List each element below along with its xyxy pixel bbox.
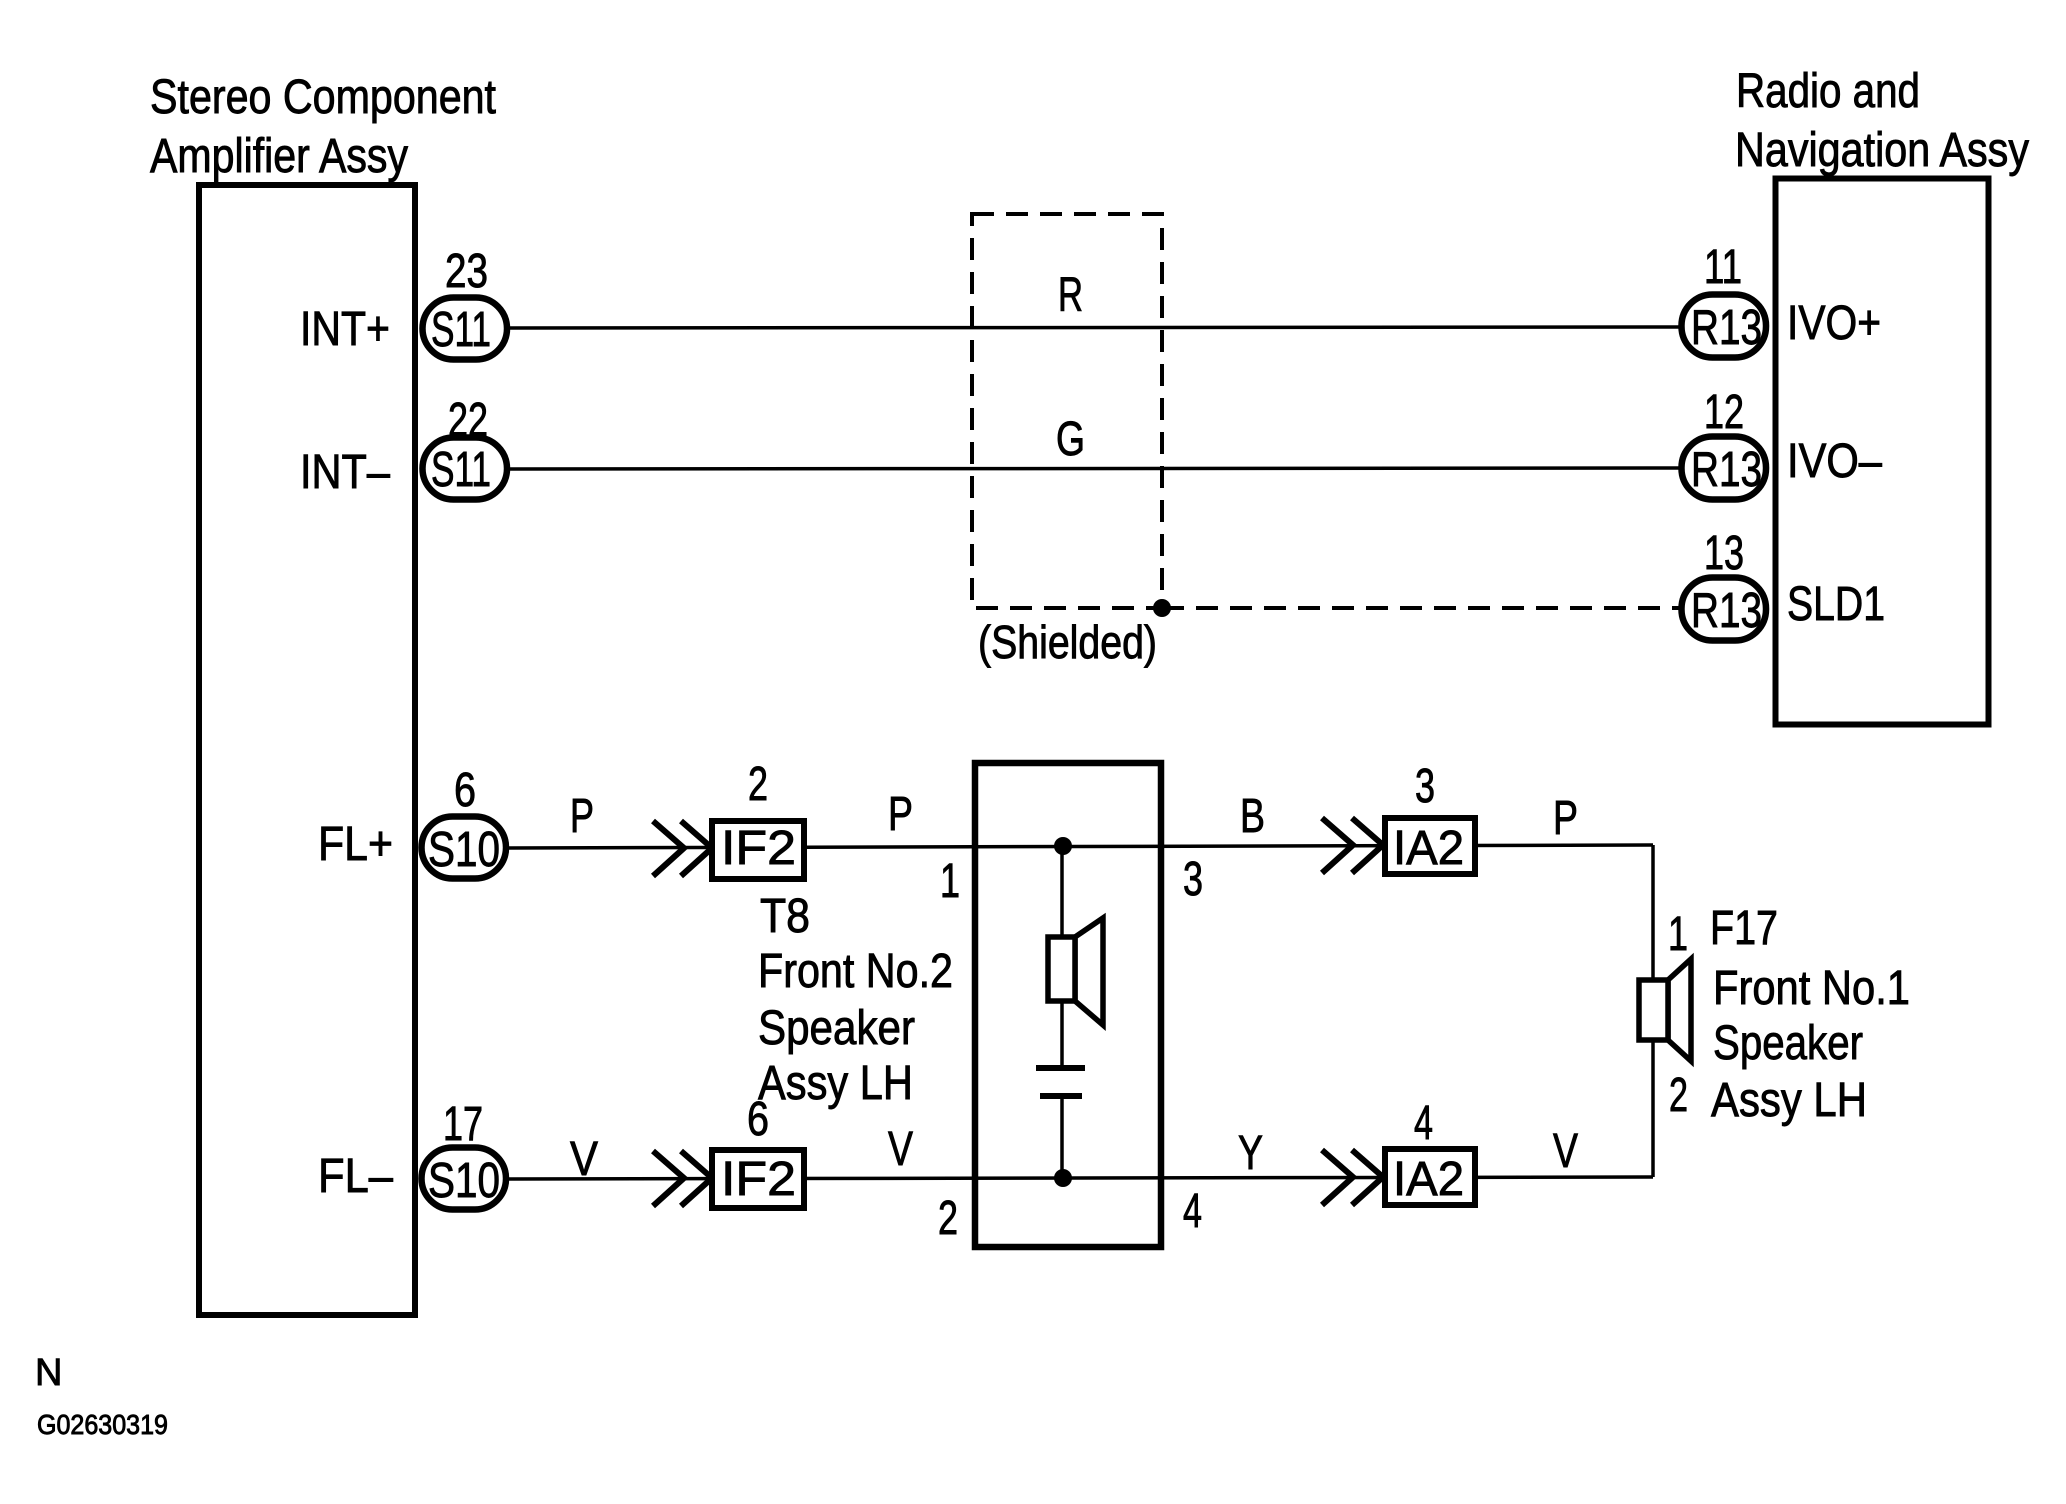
svg-text:IA2: IA2 [1393, 1153, 1464, 1206]
svg-text:13: 13 [1704, 527, 1744, 580]
shield drain dashed wire to SLD1 [1162, 606, 1680, 610]
radio box (Radio and Navigation Assy) [1776, 179, 1989, 725]
internal wire speaker branch [1060, 846, 1064, 940]
splice IA2 lower, pin 4 [1385, 1097, 1475, 1206]
amplifier box (Stereo Component Amplifier Assy) [199, 185, 415, 1315]
svg-text:G02630319: G02630319 [37, 1409, 168, 1440]
svg-text:22: 22 [448, 394, 488, 447]
svg-text:R: R [1058, 269, 1083, 322]
svg-text:Assy LH: Assy LH [1711, 1074, 1867, 1127]
svg-text:P: P [570, 790, 594, 843]
junction on shield [1153, 599, 1171, 617]
label T8 Front No.2 Speaker Assy LH [758, 890, 953, 1110]
svg-text:R13: R13 [1691, 301, 1762, 355]
wire FL- row (S10 to corner) [508, 1177, 1653, 1179]
label F17 Front No.1 Speaker Assy LH [1710, 902, 1910, 1127]
internal wire to capacitor [1060, 1001, 1064, 1065]
svg-text:INT–: INT– [300, 446, 390, 499]
svg-text:Amplifier Assy: Amplifier Assy [150, 130, 408, 183]
connector S10 pin 17 (FL-) [318, 1098, 506, 1210]
svg-text:2: 2 [1669, 1069, 1688, 1122]
svg-text:P: P [888, 788, 913, 841]
svg-text:Speaker: Speaker [1713, 1017, 1863, 1070]
svg-text:S10: S10 [428, 1154, 500, 1208]
svg-text:R13: R13 [1691, 584, 1762, 638]
svg-text:IA2: IA2 [1393, 822, 1464, 875]
svg-text:11: 11 [1704, 241, 1742, 294]
speaker box T8 (Front No.2 Speaker Assy LH) [975, 763, 1161, 1247]
svg-text:1: 1 [940, 855, 960, 908]
splice IA2 upper, pin 3 [1385, 760, 1475, 875]
junction node upper (pin1/pin3 bus) [1054, 837, 1072, 855]
wire FL+ row (S10 to corner) [508, 845, 1653, 848]
svg-text:F17: F17 [1710, 902, 1778, 955]
connector S11 pin 22 (INT-) [300, 394, 507, 500]
arrow chevrons into IA2 upper [1322, 818, 1383, 873]
svg-text:Navigation Assy: Navigation Assy [1735, 124, 2029, 177]
svg-text:Stereo Component: Stereo Component [150, 71, 496, 124]
svg-text:Y: Y [1238, 1127, 1263, 1180]
svg-text:Front No.1: Front No.1 [1713, 962, 1910, 1015]
svg-text:6: 6 [454, 764, 476, 817]
internal wire capacitor to lower bus [1060, 1099, 1064, 1178]
connector R13 pin 12 (IVO-) [1682, 386, 1883, 500]
svg-text:4: 4 [1414, 1097, 1433, 1150]
speaker F17 symbol (Front No.1 Speaker Assy LH) [1639, 959, 1691, 1061]
svg-text:2: 2 [748, 758, 768, 811]
svg-text:INT+: INT+ [300, 303, 390, 356]
svg-text:S10: S10 [428, 823, 500, 877]
svg-text:FL+: FL+ [318, 818, 393, 871]
svg-text:G: G [1056, 413, 1085, 466]
speaker symbol (tweeter) inside T8 [1048, 918, 1103, 1025]
wire INT+ to IVO+ (R) [508, 327, 1680, 328]
svg-text:4: 4 [1183, 1185, 1202, 1238]
svg-text:Radio and: Radio and [1736, 65, 1920, 118]
svg-text:IVO–: IVO– [1787, 435, 1882, 488]
junction node lower (pin2/pin4 bus) [1054, 1169, 1072, 1187]
svg-text:SLD1: SLD1 [1787, 578, 1885, 631]
connector S11 pin 23 (INT+) [300, 245, 507, 360]
svg-text:Assy LH: Assy LH [758, 1057, 913, 1110]
svg-text:1: 1 [1668, 908, 1688, 961]
connector R13 pin 11 (IVO+) [1682, 241, 1882, 358]
svg-text:P: P [1553, 792, 1578, 845]
svg-text:6: 6 [747, 1093, 769, 1146]
svg-text:12: 12 [1704, 386, 1744, 439]
splice IF2 lower, pin 6 [712, 1093, 804, 1208]
label: Radio and Navigation Assy [1735, 65, 2029, 177]
svg-text:3: 3 [1415, 760, 1435, 813]
svg-text:2: 2 [938, 1192, 958, 1245]
arrow chevrons into IF2 upper [653, 821, 712, 876]
arrow chevrons into IA2 lower [1322, 1150, 1383, 1205]
wire vertical at speaker F17 [1651, 845, 1655, 1177]
svg-text:R13: R13 [1691, 443, 1762, 497]
svg-text:V: V [1553, 1125, 1578, 1178]
shield dashed box [972, 214, 1162, 608]
connector S10 pin 6 (FL+) [318, 764, 506, 879]
splice IF2 upper, pin 2 [712, 758, 804, 879]
svg-text:N: N [35, 1352, 62, 1394]
svg-text:T8: T8 [760, 890, 810, 943]
svg-text:Front No.2: Front No.2 [758, 945, 953, 998]
label: Stereo Component Amplifier Assy [150, 71, 496, 183]
svg-text:3: 3 [1183, 853, 1203, 906]
svg-text:(Shielded): (Shielded) [978, 616, 1157, 668]
svg-text:B: B [1240, 790, 1265, 843]
arrow chevrons into IF2 lower [653, 1151, 712, 1206]
connector R13 pin 13 (SLD1) [1682, 527, 1886, 641]
svg-text:IVO+: IVO+ [1787, 297, 1881, 350]
svg-text:17: 17 [443, 1098, 483, 1151]
svg-text:S11: S11 [431, 443, 491, 497]
svg-text:IF2: IF2 [721, 822, 796, 875]
svg-text:V: V [888, 1123, 913, 1176]
wire INT- to IVO- (G) [508, 468, 1680, 469]
svg-text:IF2: IF2 [721, 1153, 796, 1206]
svg-text:23: 23 [445, 245, 488, 298]
svg-text:S11: S11 [431, 303, 491, 357]
svg-text:V: V [570, 1133, 598, 1186]
capacitor [1036, 1068, 1085, 1096]
svg-text:FL–: FL– [318, 1150, 393, 1203]
svg-text:Speaker: Speaker [758, 1002, 915, 1055]
